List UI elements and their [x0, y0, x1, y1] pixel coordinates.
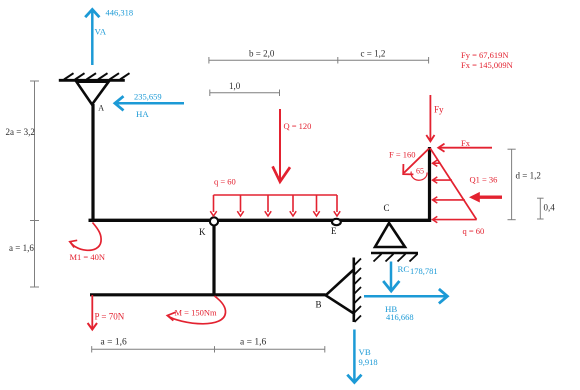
- svg-text:0,4: 0,4: [544, 203, 556, 213]
- svg-text:q = 60: q = 60: [463, 226, 485, 236]
- svg-text:65: 65: [416, 167, 424, 176]
- svg-text:446,318: 446,318: [106, 8, 134, 18]
- svg-text:a = 1,6: a = 1,6: [101, 338, 127, 348]
- svg-text:Q1 = 36: Q1 = 36: [470, 175, 498, 185]
- svg-text:B: B: [316, 300, 322, 310]
- svg-text:Fy = 67,619N: Fy = 67,619N: [461, 50, 509, 60]
- svg-text:2a = 3,2: 2a = 3,2: [6, 127, 35, 137]
- svg-text:Fx = 145,009N: Fx = 145,009N: [461, 60, 513, 70]
- svg-text:E: E: [331, 226, 337, 236]
- svg-text:d = 1,2: d = 1,2: [516, 171, 541, 181]
- svg-text:C: C: [384, 203, 390, 213]
- svg-text:9,918: 9,918: [359, 357, 378, 367]
- svg-text:416,668: 416,668: [386, 312, 414, 322]
- svg-text:a = 1,6: a = 1,6: [9, 243, 34, 253]
- svg-text:K: K: [199, 227, 206, 237]
- svg-text:M1 = 40N: M1 = 40N: [70, 252, 106, 262]
- svg-text:178,781: 178,781: [410, 266, 438, 276]
- svg-text:A: A: [98, 104, 104, 113]
- svg-text:F = 160: F = 160: [389, 150, 416, 160]
- svg-text:M = 150Nm: M = 150Nm: [175, 308, 217, 318]
- svg-text:Fy: Fy: [434, 105, 444, 115]
- svg-text:RC: RC: [398, 264, 410, 274]
- svg-text:c = 1,2: c = 1,2: [361, 49, 386, 59]
- svg-text:a = 1,6: a = 1,6: [240, 338, 266, 348]
- svg-text:Fx: Fx: [461, 138, 471, 148]
- svg-text:Q = 120: Q = 120: [284, 121, 312, 131]
- svg-text:q = 60: q = 60: [214, 177, 236, 187]
- svg-text:P = 70N: P = 70N: [95, 312, 125, 322]
- svg-text:235,659: 235,659: [134, 92, 162, 102]
- svg-text:b = 2,0: b = 2,0: [249, 49, 275, 59]
- svg-text:VA: VA: [95, 27, 107, 37]
- svg-text:VB: VB: [359, 347, 371, 357]
- svg-text:HA: HA: [136, 109, 149, 119]
- svg-text:1,0: 1,0: [229, 81, 241, 91]
